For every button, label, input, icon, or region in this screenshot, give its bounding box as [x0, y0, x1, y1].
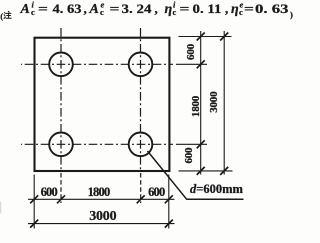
- center line horizontal bottom row: [21, 143, 173, 145]
- formula symbols and values: [20, 0, 294, 20]
- tick bottom outer at right: [165, 220, 173, 228]
- scan smudge left edge: [0, 202, 1, 214]
- svg-text:4. 63: 4. 63: [53, 1, 83, 16]
- svg-text:A: A: [20, 2, 30, 17]
- center line horizontal top row: [21, 63, 173, 65]
- svg-text:600: 600: [148, 185, 165, 199]
- svg-text:(: (: [0, 11, 3, 21]
- svg-text:,: ,: [155, 1, 158, 16]
- svg-text:): ): [290, 10, 293, 20]
- extension line right top: [179, 36, 232, 38]
- plate outline: [35, 38, 170, 171]
- hanzi zhu (note) drawn as strokes: [4, 11, 11, 18]
- tick right inner at bottom: [197, 167, 205, 175]
- hole bottom-left: [49, 133, 73, 157]
- tick right inner at lower center: [197, 140, 205, 148]
- extension line bottom right: [168, 175, 170, 229]
- svg-text:=: =: [180, 1, 190, 16]
- tick right inner at upper center: [197, 60, 205, 68]
- extension line right upper center: [176, 63, 207, 65]
- svg-text:c: c: [173, 7, 177, 17]
- svg-text:η: η: [231, 2, 239, 17]
- svg-text:0. 11: 0. 11: [193, 1, 222, 16]
- dimension line bottom outer: [28, 223, 175, 225]
- svg-text:3000: 3000: [89, 209, 116, 224]
- svg-text:1800: 1800: [190, 95, 202, 117]
- dimension line right inner: [200, 31, 202, 175]
- svg-text:c: c: [31, 7, 35, 17]
- extension line right bottom: [179, 170, 233, 172]
- hole bottom-right: [129, 133, 153, 157]
- svg-text:,: ,: [84, 1, 87, 16]
- extension line bottom left: [33, 175, 35, 229]
- dashed extension below left column: [60, 173, 62, 203]
- svg-text:,: ,: [225, 1, 228, 16]
- tick right outer at bottom: [220, 167, 228, 175]
- extension line right lower center: [176, 143, 207, 145]
- tick bottom inner at left column: [57, 195, 65, 203]
- svg-text:η: η: [165, 2, 173, 17]
- tick bottom outer at left: [30, 220, 38, 228]
- tick bottom inner at right: [165, 195, 173, 203]
- center line vertical left column: [60, 27, 62, 171]
- center line vertical right column: [140, 27, 142, 171]
- dimension line bottom inner: [28, 198, 175, 200]
- svg-text:d=600mm: d=600mm: [190, 182, 244, 196]
- svg-text:600: 600: [185, 43, 197, 60]
- hole top-right: [129, 53, 153, 77]
- svg-text:c: c: [100, 7, 104, 17]
- tick bottom inner at left: [30, 195, 38, 203]
- svg-text:=: =: [38, 1, 48, 16]
- hole top-left: [49, 53, 73, 77]
- tick right inner at top: [197, 33, 205, 41]
- dashed extension below right column: [140, 173, 142, 203]
- note formula line: [0, 11, 3, 21]
- svg-text:3. 24: 3. 24: [122, 1, 153, 16]
- svg-text:=: =: [110, 1, 120, 16]
- svg-text:600: 600: [183, 147, 195, 164]
- svg-text:3000: 3000: [208, 91, 220, 113]
- dimension line right outer: [223, 31, 225, 175]
- svg-text:1800: 1800: [88, 185, 110, 199]
- tick right outer at top: [220, 33, 228, 41]
- svg-text:c: c: [239, 7, 243, 17]
- svg-text:A: A: [89, 2, 99, 17]
- svg-text:600: 600: [41, 185, 58, 199]
- svg-text:=: =: [244, 1, 254, 16]
- svg-text:0. 63: 0. 63: [255, 1, 289, 16]
- tick bottom inner at right column: [137, 195, 145, 203]
- leader line to hole diameter label: [148, 151, 244, 199]
